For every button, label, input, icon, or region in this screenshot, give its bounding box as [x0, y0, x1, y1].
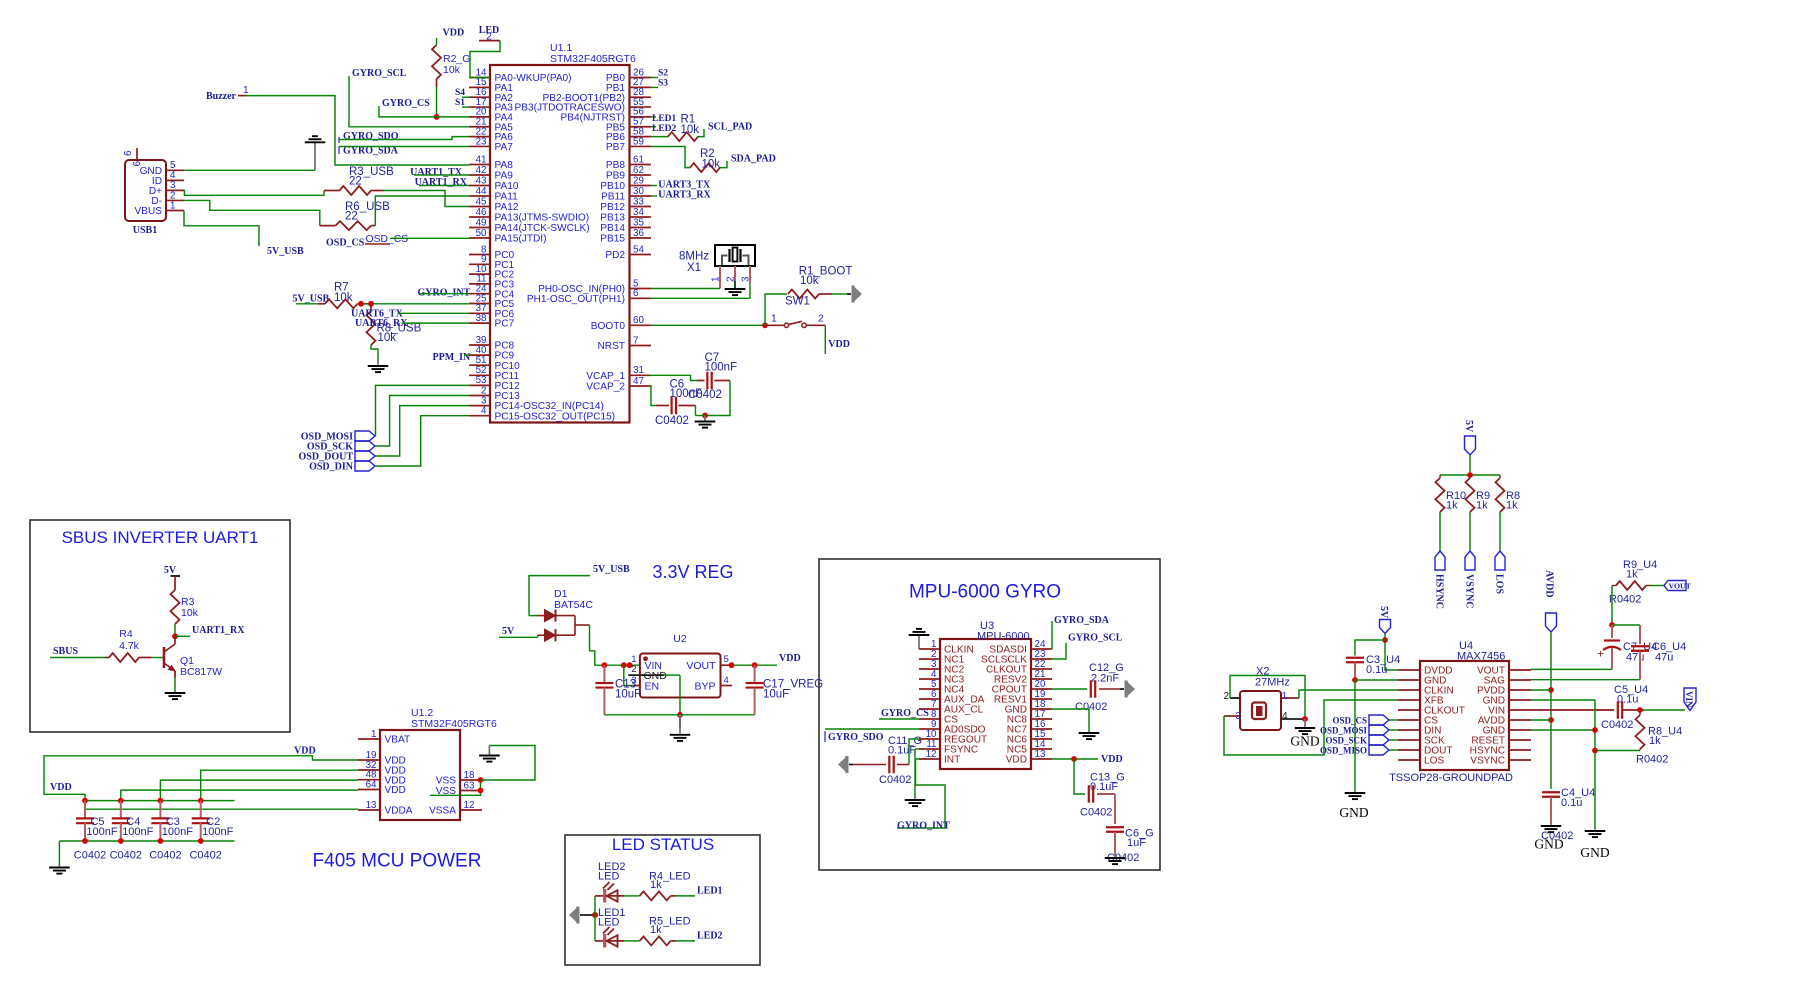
svg-text:59: 59: [633, 136, 644, 147]
resistor R2 10k (SDA_PAD): [690, 148, 720, 172]
svg-text:LED STATUS: LED STATUS: [612, 835, 714, 854]
svg-text:LED2: LED2: [697, 931, 723, 942]
svg-text:OSD_DIN: OSD_DIN: [309, 462, 354, 473]
svg-text:0.1uF: 0.1uF: [888, 745, 916, 757]
svg-text:BAT54C: BAT54C: [554, 599, 593, 611]
IC U1.1 STM32F405RGT6 MCU body: [490, 42, 636, 423]
resistor R3 10k (SBUS): [171, 590, 199, 624]
svg-text:BOOT0: BOOT0: [591, 321, 626, 332]
svg-text:1k: 1k: [1476, 500, 1488, 512]
capacitor C4_U4 0.1u C0402: [1541, 787, 1595, 842]
label UART1_RX + wire to PA10: [415, 177, 469, 188]
svg-text:50: 50: [476, 228, 487, 239]
label SBUS + wire: [50, 646, 109, 658]
svg-text:LED1: LED1: [652, 114, 677, 124]
capacitor C6_U4 47u: [1631, 625, 1686, 680]
wire D+ to R3_USB: [184, 190, 339, 195]
svg-text:47u: 47u: [1655, 652, 1673, 664]
svg-text:1: 1: [371, 729, 376, 740]
wire C6_U4 to SAG pin: [1531, 679, 1640, 681]
svg-text:SW1: SW1: [785, 296, 810, 308]
wire + label LED1 flag: [671, 886, 723, 897]
section box SBUS INVERTER UART1: [30, 520, 290, 732]
svg-text:4.7k: 4.7k: [119, 640, 140, 652]
U1.1 pins PC0-PC7: [469, 244, 515, 329]
wire R7 to PC5 + junctions: [358, 301, 470, 307]
flag VOUT: [1650, 581, 1692, 591]
cap top rail + junctions: [82, 798, 234, 804]
label VDD (left): [50, 782, 72, 793]
svg-text:S3: S3: [658, 78, 668, 88]
U1.1 pin BOOT0: [591, 315, 651, 332]
svg-text:100nF: 100nF: [86, 826, 117, 838]
wire VIN to EN tie: [624, 665, 633, 685]
svg-text:BC817W: BC817W: [180, 666, 222, 678]
wire U3 GND pin to ground: [1052, 709, 1089, 730]
power 5V (SBUS): [164, 565, 180, 590]
wire R9_U4 to junction + C7_U4: [1609, 586, 1640, 628]
svg-text:LED1: LED1: [697, 886, 723, 897]
U3 right pins 24-13: [981, 639, 1052, 766]
svg-text:100nF: 100nF: [705, 361, 738, 373]
wire C6 to rail junction: [696, 406, 708, 419]
svg-text:HSYNC: HSYNC: [1434, 574, 1445, 609]
svg-text:49: 49: [476, 217, 487, 228]
svg-text:EN: EN: [645, 681, 660, 693]
U1.1 pin PD2: [605, 244, 651, 261]
transistor Q1 BC817W: [164, 636, 222, 678]
label OSD_DIN + flag + wire to PC15: [309, 416, 469, 473]
svg-text:VSS: VSS: [436, 776, 456, 787]
svg-text:0.1u: 0.1u: [1617, 694, 1638, 706]
svg-text:38: 38: [476, 313, 487, 324]
wire + label LED2 flag: [671, 931, 723, 942]
capacitor C13 10uF: [595, 665, 641, 715]
label OSD_MISO + flag + wire to DOUT: [1320, 745, 1398, 756]
wire 5V to DVDD: [1382, 637, 1398, 670]
label OSD_MOSI + flag + wire to DIN: [1320, 725, 1398, 736]
svg-text:PB12: PB12: [600, 202, 625, 213]
flag HSYNC: [1434, 551, 1446, 609]
svg-text:UART3_RX: UART3_RX: [658, 190, 711, 201]
svg-text:NRST: NRST: [598, 341, 625, 352]
svg-text:12: 12: [926, 749, 937, 760]
switch SW1: [765, 296, 825, 328]
svg-text:GND: GND: [1290, 734, 1319, 749]
svg-text:VSYNC: VSYNC: [1470, 756, 1505, 767]
IC U3 MPU-6000 body: [940, 620, 1031, 769]
wire BOOT0 to SW1 junction: [651, 322, 768, 328]
svg-text:7: 7: [633, 335, 638, 346]
wire U4 GND pin to ground: [1355, 680, 1398, 790]
svg-text:STM32F405RGT6: STM32F405RGT6: [550, 53, 636, 65]
svg-text:2: 2: [631, 664, 636, 675]
wire VDDA row: [85, 808, 358, 810]
svg-text:27MHz: 27MHz: [1255, 677, 1290, 689]
label OSD_DOUT + flag + wire to PC14: [299, 406, 469, 463]
svg-text:SDA_PAD: SDA_PAD: [731, 153, 776, 164]
svg-text:GND: GND: [1339, 805, 1368, 820]
svg-text:TSSOP28-GROUNDPAD: TSSOP28-GROUNDPAD: [1389, 772, 1513, 784]
capacitor C5 100nF C0402: [74, 801, 118, 862]
svg-text:STM32F405RGT6: STM32F405RGT6: [411, 718, 497, 730]
ground (U3 CLKIN): [909, 629, 930, 649]
svg-text:R0402: R0402: [1636, 754, 1668, 766]
resistor R5_LED 1k: [624, 916, 691, 946]
svg-text:10k: 10k: [378, 332, 397, 344]
ground arrow (R1_BOOT): [847, 286, 862, 303]
svg-text:U2: U2: [673, 633, 687, 645]
LED LED1: [595, 907, 626, 948]
svg-text:INT: INT: [944, 755, 960, 766]
label GYRO_SCL + wire from SCLSCLK: [1052, 633, 1123, 659]
svg-text:10k: 10k: [181, 607, 199, 619]
capacitor C13_G 0.1uF C0402: [1080, 772, 1125, 819]
svg-text:41: 41: [476, 154, 487, 165]
svg-text:GYRO_INT: GYRO_INT: [418, 287, 471, 298]
svg-text:MPU-6000 GYRO: MPU-6000 GYRO: [909, 582, 1061, 603]
svg-text:SBUS INVERTER UART1: SBUS INVERTER UART1: [62, 528, 259, 547]
wire U4 right GND pins to ground rail: [1531, 700, 1640, 828]
svg-text:1k: 1k: [650, 879, 662, 891]
U1.1 pins PB8-PB15: [600, 154, 651, 244]
wire + label SCL_PAD: [698, 122, 752, 137]
resistor R8 1k: [1496, 475, 1521, 512]
IC U1.2 STM32F405RGT6 power section body: [380, 707, 497, 820]
svg-text:12: 12: [464, 800, 475, 811]
label OSD_CS (x2) + wire to PA15: [326, 234, 469, 249]
label GYRO_CS + wire to PA4: [379, 98, 469, 117]
wire + label SDA_PAD: [720, 153, 776, 167]
svg-text:MAX7456: MAX7456: [1457, 651, 1505, 663]
wire INT to GYRO_INT: [897, 759, 945, 828]
svg-text:10uF: 10uF: [763, 689, 789, 701]
svg-text:1: 1: [1282, 691, 1288, 702]
capacitor C12_G 2.2nF C0402: [1052, 662, 1124, 713]
svg-text:VDDA: VDDA: [385, 806, 413, 817]
svg-text:F405 MCU POWER: F405 MCU POWER: [313, 851, 482, 872]
labels S2/S3 on PB0/PB1: [651, 68, 668, 88]
svg-text:VDD: VDD: [385, 785, 406, 796]
svg-text:PA9: PA9: [495, 171, 514, 182]
svg-text:PA14(JTCK-SWCLK): PA14(JTCK-SWCLK): [495, 223, 590, 234]
wire PVDD to AVDD rail: [1531, 689, 1551, 691]
svg-text:10k: 10k: [681, 124, 700, 136]
svg-text:PA13(JTMS-SWDIO): PA13(JTMS-SWDIO): [495, 213, 590, 224]
capacitor C3_U4 0.1u: [1346, 640, 1400, 683]
U1.1 pins PC8-PC15: [469, 335, 615, 423]
svg-text:43: 43: [476, 175, 487, 186]
label 5V + wire to D1: [499, 626, 538, 637]
label GYRO_SDA + wire to PA7: [339, 146, 469, 157]
svg-text:5V_USB: 5V_USB: [267, 246, 304, 257]
ground (FSYNC): [905, 797, 926, 806]
svg-text:18: 18: [464, 770, 475, 781]
wire VSS pins to ground (flipped): [430, 746, 535, 796]
svg-text:VDD: VDD: [1101, 754, 1123, 765]
wire C7 to rail: [705, 381, 730, 416]
capacitor C3 100nF C0402: [149, 801, 193, 862]
svg-text:61: 61: [633, 154, 644, 165]
svg-text:1k: 1k: [1649, 735, 1661, 747]
svg-text:PA12: PA12: [495, 202, 519, 213]
wire PH1 to X1 pin3: [651, 283, 750, 298]
svg-text:PB9: PB9: [606, 171, 625, 182]
svg-text:PB14: PB14: [600, 223, 625, 234]
svg-text:34: 34: [633, 207, 644, 218]
resistor R7 10k: [318, 282, 372, 309]
svg-text:BYP: BYP: [694, 681, 715, 693]
svg-text:63: 63: [464, 780, 475, 791]
cap bottom rail: [59, 838, 234, 844]
svg-text:GYRO_CS: GYRO_CS: [382, 98, 430, 109]
svg-text:GYRO_INT: GYRO_INT: [897, 820, 950, 831]
svg-text:SCL_PAD: SCL_PAD: [708, 122, 752, 133]
wire 5V rail + junction: [1440, 472, 1500, 478]
svg-text:PB15: PB15: [600, 234, 625, 245]
flag VSYNC: [1464, 551, 1476, 608]
svg-text:3: 3: [741, 276, 752, 282]
svg-text:1k: 1k: [650, 924, 662, 936]
svg-text:3.3V REG: 3.3V REG: [652, 562, 733, 582]
svg-text:13: 13: [1035, 749, 1046, 760]
wire AVDD vertical: [1548, 632, 1554, 789]
svg-text:PB10: PB10: [600, 181, 625, 192]
U1.1 pins PB0-PB7: [515, 67, 651, 153]
svg-text:VDD: VDD: [1006, 755, 1027, 766]
svg-text:PH1-OSC_OUT(PH1): PH1-OSC_OUT(PH1): [527, 294, 625, 305]
ground (X2) + GND text: [1290, 719, 1319, 749]
label UART6_RX + wire to PC7: [355, 318, 469, 329]
wire PB7 to R2: [651, 147, 690, 168]
U1.2 left pins: [358, 729, 413, 817]
wire R6_USB to PA11: [371, 196, 469, 226]
label GYRO_INT + wire to PC4: [418, 287, 471, 298]
section box MPU-6000 GYRO: [819, 559, 1160, 870]
svg-text:22: 22: [345, 211, 358, 223]
ground arrow (C12_G): [1120, 681, 1135, 698]
label 5V_USB + wire (R7): [293, 294, 330, 305]
svg-text:UART1_RX: UART1_RX: [192, 625, 245, 636]
diode D1 BAT54C (dual schottky): [529, 588, 593, 641]
title 3.3V REG: [652, 562, 733, 582]
section box LED STATUS: [565, 835, 760, 965]
svg-text:S2: S2: [658, 68, 668, 78]
wire rail to ground: [58, 841, 60, 865]
svg-text:LED: LED: [598, 871, 619, 883]
svg-text:PB13: PB13: [600, 213, 625, 224]
wire AVDD pin to rail: [1531, 719, 1551, 721]
wire LED to PA0: [470, 41, 500, 78]
svg-text:5: 5: [724, 654, 729, 665]
label OSD_SCK + flag + wire to PC13: [307, 396, 469, 453]
labels UART3_TX/RX on PB10/PB11: [651, 180, 712, 201]
resistor R8_U4 1k R0402: [1636, 710, 1683, 766]
capacitor C17_VREG 10uF: [746, 665, 824, 715]
ground (C6_G): [1105, 852, 1126, 864]
svg-text:C0402: C0402: [110, 850, 142, 862]
wire R10 to HSYNC flag: [1439, 512, 1441, 551]
svg-text:VOUT: VOUT: [1669, 581, 1692, 590]
svg-text:23: 23: [476, 136, 487, 147]
svg-text:44: 44: [476, 186, 487, 197]
ground (VSS, flipped): [479, 746, 500, 762]
wire SW1 pin2 to VDD: [825, 325, 850, 354]
wire junction up to R1_BOOT: [765, 294, 787, 325]
wire VIN pin to C5_U4: [1531, 709, 1614, 711]
svg-text:0.1u: 0.1u: [1366, 664, 1387, 676]
label GYRO_SDO + wire to PA6: [339, 131, 469, 143]
svg-text:5V: 5V: [1378, 606, 1389, 619]
svg-text:1k: 1k: [1446, 500, 1458, 512]
svg-text:1: 1: [170, 200, 175, 211]
flag AVDD: [1544, 570, 1557, 632]
svg-text:0.1u: 0.1u: [1561, 797, 1582, 809]
svg-text:OSD_CS: OSD_CS: [366, 234, 409, 245]
svg-text:PA11: PA11: [495, 192, 519, 203]
wire VBUS to 5V_USB: [184, 211, 259, 247]
svg-text:47u: 47u: [1626, 652, 1644, 664]
power flag VDD (R2_G top): [437, 28, 465, 46]
resistor R9 1k: [1466, 475, 1491, 512]
power flag 5V (resistor bank): [1463, 420, 1476, 475]
IC U4 MAX7456 body: [1389, 640, 1513, 784]
svg-text:GND: GND: [1534, 837, 1563, 852]
ground (X1 pin2): [725, 281, 746, 295]
wire R8 to LOS flag: [1499, 512, 1501, 551]
regulator U2: [628, 633, 732, 698]
label OSD_MOSI + flag + wire to PC12: [301, 385, 469, 442]
ground (C4_U4) + GND text: [1534, 823, 1563, 852]
svg-text:SBUS: SBUS: [53, 646, 78, 657]
svg-text:VOUT: VOUT: [686, 660, 716, 672]
wire VDD32: [201, 770, 358, 800]
wire D- to R6_USB: [184, 200, 336, 225]
labels LED1/LED2 on PB4/PB5: [651, 114, 677, 134]
svg-text:PA7: PA7: [495, 142, 514, 153]
svg-text:PC7: PC7: [495, 319, 515, 330]
ground (U4 GND left) + GND text: [1339, 790, 1368, 820]
capacitor C7_U4 47u (polarized): [1597, 625, 1657, 669]
resistor R9_U4 1k R0402: [1609, 559, 1657, 606]
svg-text:UART6_RX: UART6_RX: [355, 318, 408, 329]
wire VDD48: [160, 780, 358, 801]
wire USB GND to ground: [184, 169, 315, 171]
U3 left pins 1-12: [919, 639, 987, 766]
svg-text:100nF: 100nF: [122, 826, 153, 838]
title F405 MCU POWER: [313, 851, 482, 872]
resistor R6_USB 22: [336, 201, 390, 230]
svg-text:LOS: LOS: [1424, 756, 1444, 767]
label VDD (top wire) + wire VDD19: [44, 746, 358, 810]
svg-text:8MHz: 8MHz: [679, 250, 709, 262]
wire VDD64: [121, 790, 358, 801]
svg-text:MPU-6000: MPU-6000: [977, 630, 1030, 642]
capacitor C6 100nF C0402: [655, 379, 702, 427]
svg-text:3: 3: [1235, 711, 1241, 722]
bottom rail (reg): [604, 714, 754, 716]
svg-text:64: 64: [366, 779, 377, 790]
svg-text:5V_USB: 5V_USB: [593, 564, 630, 575]
U4 left pins: [1398, 666, 1465, 767]
svg-text:X1: X1: [687, 262, 701, 274]
wire D1 out to VIN: [575, 625, 640, 668]
svg-text:31: 31: [633, 365, 644, 376]
wire R9 to VSYNC flag: [1469, 512, 1471, 551]
svg-text:C0402: C0402: [1080, 807, 1112, 819]
ground (VCAP): [695, 416, 716, 428]
svg-text:36: 36: [633, 228, 644, 239]
wire X2 pin3 to XFB: [1224, 700, 1398, 755]
wire GND pin2 to rail: [664, 675, 683, 718]
USB1 shield pin 6: [123, 148, 143, 167]
ground (U3 GND): [1079, 730, 1100, 739]
wire FSYNC to ground: [915, 749, 919, 797]
svg-text:VCAP_2: VCAP_2: [586, 382, 625, 393]
ground (USB GND, flipped): [305, 136, 326, 170]
label PPM_IN + wire to PC9: [433, 352, 472, 363]
U1.1 pins VCAP: [586, 365, 651, 393]
svg-text:VDD: VDD: [294, 746, 316, 757]
svg-text:PB8: PB8: [606, 160, 625, 171]
svg-text:2: 2: [1223, 691, 1229, 702]
ground (reg): [670, 715, 691, 741]
resistor R4_LED 1k: [624, 871, 691, 901]
svg-text:29: 29: [633, 175, 644, 186]
svg-text:46: 46: [476, 207, 487, 218]
wire VCAP_1 to C7: [650, 375, 705, 380]
U1.1 pins PA0-PA7: [469, 67, 572, 153]
svg-text:1: 1: [711, 276, 722, 282]
svg-text:C0402: C0402: [189, 850, 221, 862]
flag LOS: [1494, 551, 1506, 594]
wire R3 to junction + label UART1_RX: [172, 624, 245, 639]
svg-text:USB1: USB1: [133, 225, 157, 236]
svg-text:GYRO_SDO: GYRO_SDO: [343, 131, 399, 142]
svg-text:5V_USB: 5V_USB: [293, 294, 330, 305]
svg-text:OSD_MISO: OSD_MISO: [1320, 746, 1367, 756]
wire C13_G to C6_G: [1114, 794, 1116, 824]
capacitor C7 100nF C0402: [688, 352, 737, 401]
connector USB1: [125, 160, 166, 236]
svg-text:100nF: 100nF: [670, 388, 703, 400]
svg-text:VDD: VDD: [828, 339, 850, 350]
svg-text:30: 30: [633, 186, 644, 197]
crystal X2 27MHz: [1240, 666, 1290, 731]
hier pin LED 2 (flag top): [479, 25, 500, 42]
wire R4 to Q1 base: [139, 657, 163, 659]
svg-text:13: 13: [366, 800, 377, 811]
svg-text:4: 4: [1282, 711, 1288, 722]
wire R2_G to PA4 junction: [434, 79, 440, 120]
resistor R4 4.7k: [109, 628, 140, 662]
svg-text:60: 60: [633, 315, 644, 326]
svg-text:C0402: C0402: [149, 850, 181, 862]
svg-text:OSD_CS: OSD_CS: [1332, 716, 1367, 726]
svg-text:PA10: PA10: [495, 181, 519, 192]
svg-text:OSD_MOSI: OSD_MOSI: [1320, 726, 1368, 736]
svg-text:GYRO_SCL: GYRO_SCL: [352, 68, 407, 79]
capacitor C4 100nF C0402: [110, 801, 154, 862]
svg-text:10k: 10k: [702, 158, 721, 170]
svg-text:Buzzer: Buzzer: [206, 91, 237, 102]
svg-text:4: 4: [724, 675, 729, 686]
USB1 pins: [135, 160, 185, 217]
svg-text:VSSA: VSSA: [429, 806, 456, 817]
svg-text:33: 33: [633, 196, 644, 207]
svg-text:C0402: C0402: [1601, 719, 1633, 731]
capacitor C5_U4 0.1u C0402: [1601, 684, 1648, 731]
